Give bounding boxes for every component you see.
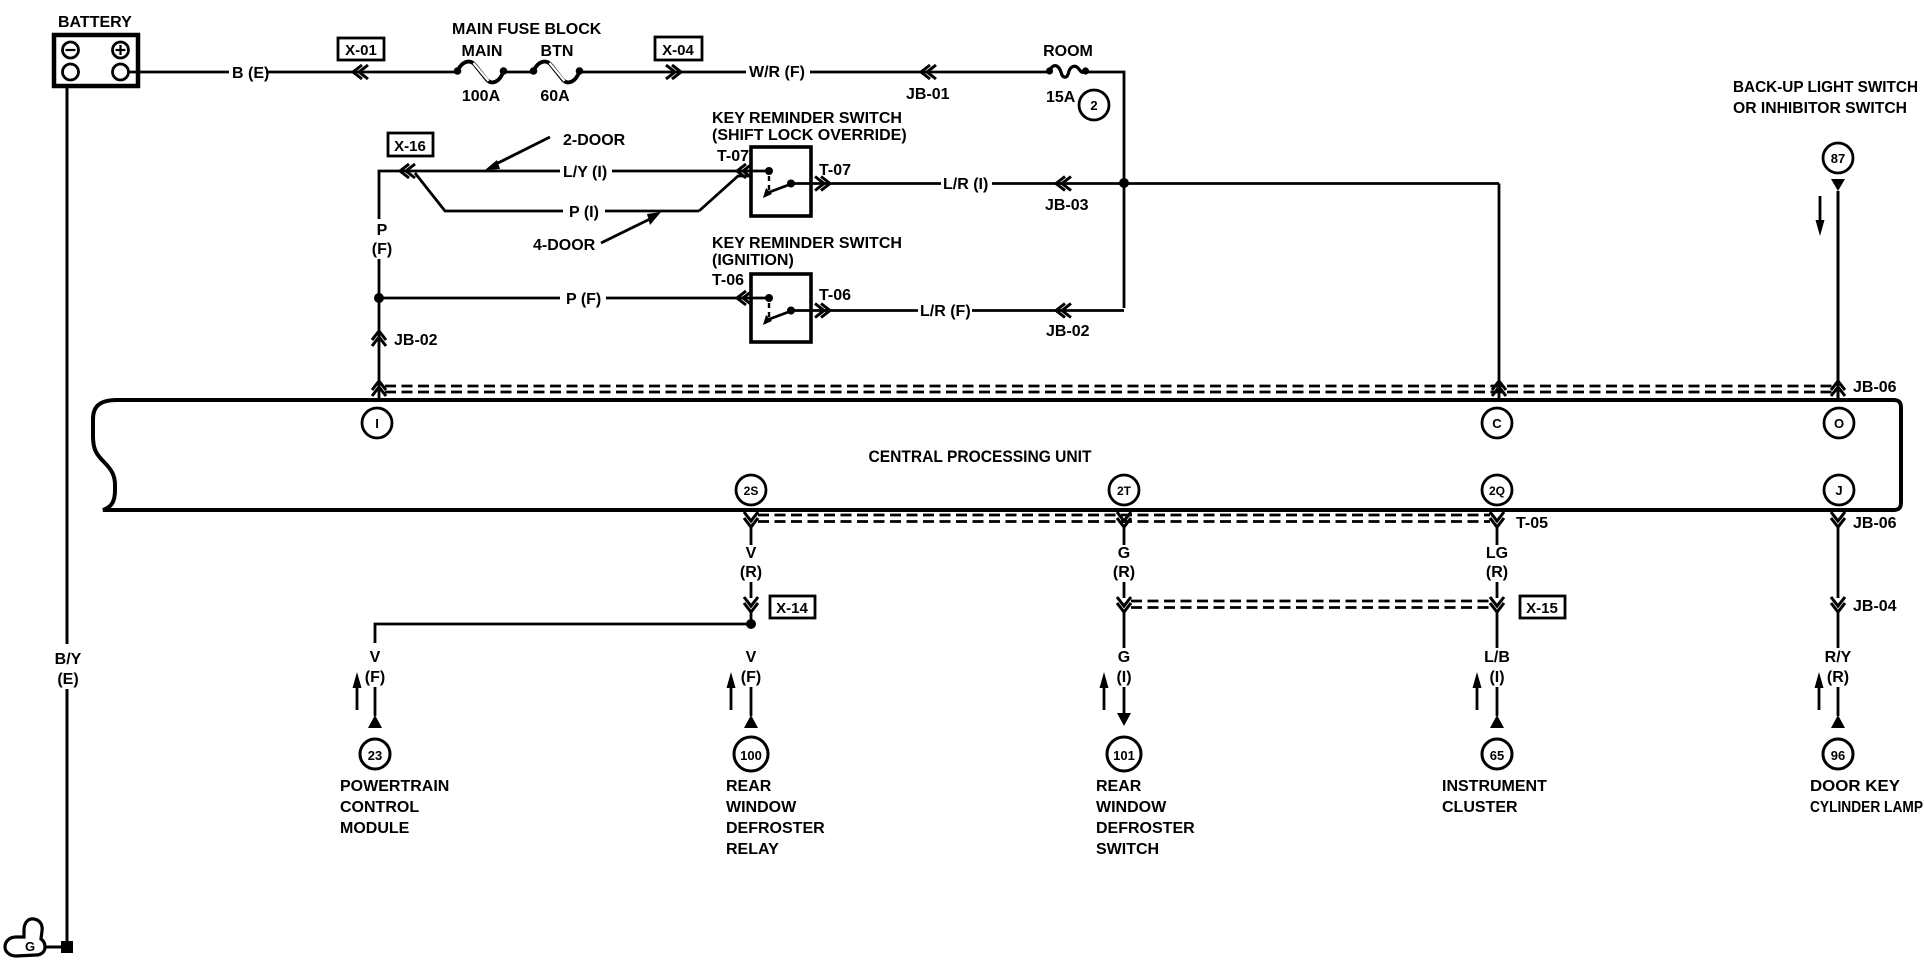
svg-text:2S: 2S bbox=[744, 484, 759, 498]
svg-text:(F): (F) bbox=[365, 669, 385, 686]
svg-text:2T: 2T bbox=[1117, 484, 1132, 498]
svg-text:CENTRAL PROCESSING UNIT: CENTRAL PROCESSING UNIT bbox=[869, 447, 1093, 466]
connector box X-01 bbox=[338, 38, 384, 60]
connector box X-15 bbox=[1520, 596, 1565, 618]
svg-text:CLUSTER: CLUSTER bbox=[1442, 799, 1518, 816]
triangle connector (down) bbox=[1831, 179, 1845, 191]
wire B(E) battery to fuse block bbox=[129, 71, 230, 74]
svg-text:96: 96 bbox=[1831, 748, 1845, 763]
svg-text:W/R (F): W/R (F) bbox=[749, 64, 805, 81]
svg-text:2: 2 bbox=[1090, 98, 1097, 113]
wire L/Y (I) with corner bbox=[379, 171, 560, 219]
svg-text:(R): (R) bbox=[1113, 564, 1135, 581]
svg-text:R/Y: R/Y bbox=[1825, 649, 1852, 666]
svg-text:O: O bbox=[1834, 416, 1844, 431]
wire JB-06 to JB-04 bbox=[1837, 527, 1840, 598]
svg-text:P: P bbox=[377, 222, 388, 239]
svg-text:(SHIFT LOCK OVERRIDE): (SHIFT LOCK OVERRIDE) bbox=[712, 127, 907, 144]
wire between fuses bbox=[505, 71, 533, 74]
svg-text:MAIN: MAIN bbox=[462, 43, 503, 60]
triangle connector up bbox=[368, 715, 382, 728]
svg-text:V: V bbox=[746, 545, 757, 562]
direction arrow down bbox=[1816, 196, 1825, 236]
connector circle 96 bbox=[1823, 739, 1853, 769]
svg-text:L/R (I): L/R (I) bbox=[943, 176, 988, 193]
svg-text:BACK-UP LIGHT SWITCH: BACK-UP LIGHT SWITCH bbox=[1733, 79, 1918, 96]
svg-text:C: C bbox=[1492, 416, 1502, 431]
svg-text:REAR: REAR bbox=[1096, 778, 1142, 795]
direction arrow up bbox=[727, 672, 736, 710]
svg-text:LG: LG bbox=[1486, 545, 1508, 562]
svg-text:L/B: L/B bbox=[1484, 649, 1510, 666]
wire diagonal P(I) to T-07 bbox=[699, 176, 751, 211]
wire L/B (I) bbox=[1496, 612, 1499, 648]
svg-text:JB-03: JB-03 bbox=[1045, 197, 1089, 214]
junction chevron JB-04 bbox=[1831, 597, 1845, 612]
wire dashed bus lower bbox=[758, 515, 1490, 522]
svg-text:JB-04: JB-04 bbox=[1853, 598, 1897, 615]
junction chevron below 2T bbox=[1117, 512, 1131, 527]
svg-text:G: G bbox=[1118, 545, 1130, 562]
battery bbox=[54, 14, 138, 86]
svg-text:KEY REMINDER SWITCH: KEY REMINDER SWITCH bbox=[712, 235, 902, 252]
wire W/R to ROOM fuse bbox=[810, 71, 1049, 74]
svg-text:65: 65 bbox=[1490, 748, 1504, 763]
svg-text:J: J bbox=[1835, 483, 1842, 498]
wire dashed X-15 link bbox=[1131, 601, 1490, 608]
svg-text:60A: 60A bbox=[540, 88, 570, 105]
svg-text:L/Y (I): L/Y (I) bbox=[563, 164, 607, 181]
junction chevron below 2Q (T-05) bbox=[1490, 512, 1504, 527]
svg-text:I: I bbox=[375, 416, 379, 431]
label P (F) vertical wire bbox=[372, 222, 392, 258]
label powertrain control module bbox=[340, 778, 449, 837]
svg-text:P (F): P (F) bbox=[566, 291, 601, 308]
svg-text:(R): (R) bbox=[740, 564, 762, 581]
connector circle 100 bbox=[734, 737, 768, 771]
connector box X-04 bbox=[655, 37, 702, 60]
wire V (R) bbox=[750, 527, 753, 545]
svg-text:T-07: T-07 bbox=[717, 148, 749, 165]
wire LG (R) bbox=[1496, 527, 1499, 545]
connector X-01 chevron bbox=[353, 65, 368, 79]
fuse BTN 60A bbox=[530, 43, 584, 105]
svg-text:(R): (R) bbox=[1827, 669, 1849, 686]
svg-text:(E): (E) bbox=[57, 671, 78, 688]
terminal J bbox=[1824, 475, 1854, 505]
svg-text:T-05: T-05 bbox=[1516, 515, 1548, 532]
wire B/Y (E) bbox=[66, 88, 69, 644]
svg-text:JB-06: JB-06 bbox=[1853, 515, 1897, 532]
svg-text:ROOM: ROOM bbox=[1043, 43, 1093, 60]
terminal 2T bbox=[1109, 475, 1139, 505]
wire to PCM bbox=[374, 687, 377, 716]
svg-text:T-06: T-06 bbox=[712, 272, 744, 289]
label rear window defroster relay bbox=[726, 778, 825, 858]
junction chevron above O (JB-06) bbox=[1831, 381, 1845, 396]
label door key cylinder lamp bbox=[1810, 778, 1923, 816]
svg-text:V: V bbox=[746, 649, 757, 666]
svg-text:SWITCH: SWITCH bbox=[1096, 841, 1159, 858]
svg-text:WINDOW: WINDOW bbox=[726, 799, 797, 816]
connector circle 101 bbox=[1107, 737, 1141, 771]
terminal 2Q bbox=[1482, 475, 1512, 505]
svg-text:JB-06: JB-06 bbox=[1853, 379, 1897, 396]
wire R/Y (R) bbox=[1837, 612, 1840, 648]
key reminder switch T-07 (shift lock override) bbox=[712, 110, 907, 216]
svg-text:MAIN FUSE BLOCK: MAIN FUSE BLOCK bbox=[452, 21, 602, 38]
svg-text:KEY REMINDER SWITCH: KEY REMINDER SWITCH bbox=[712, 110, 902, 127]
wire dashed bus upper bbox=[385, 386, 1832, 392]
svg-text:X-14: X-14 bbox=[776, 600, 808, 617]
wire G (I) bbox=[1123, 612, 1126, 648]
svg-text:2Q: 2Q bbox=[1489, 484, 1505, 498]
connector box X-14 bbox=[770, 596, 815, 618]
chevron into T-06 bbox=[737, 291, 752, 305]
svg-text:V: V bbox=[370, 649, 381, 666]
pointer 4-DOOR bbox=[533, 212, 661, 254]
connector circle 87 bbox=[1823, 143, 1853, 173]
direction arrow up bbox=[353, 672, 362, 710]
svg-text:CONTROL: CONTROL bbox=[340, 799, 419, 816]
svg-text:INSTRUMENT: INSTRUMENT bbox=[1442, 778, 1547, 795]
svg-text:B (E): B (E) bbox=[232, 65, 269, 82]
svg-text:(F): (F) bbox=[741, 669, 761, 686]
svg-text:15A: 15A bbox=[1046, 89, 1076, 106]
wire down to CPU terminal C bbox=[1498, 184, 1501, 400]
node P(F) junction bbox=[374, 293, 384, 303]
svg-text:100: 100 bbox=[740, 748, 762, 763]
svg-text:X-16: X-16 bbox=[394, 138, 426, 155]
svg-text:G: G bbox=[1118, 649, 1130, 666]
junction chevron above I bbox=[372, 381, 386, 396]
circuit number circle 2 bbox=[1079, 90, 1109, 120]
fuse ROOM 15A bbox=[1043, 43, 1093, 106]
junction chevron above C bbox=[1492, 381, 1506, 396]
wire V(F) horizontal to PCM branch bbox=[375, 624, 751, 643]
wire ground link bbox=[44, 946, 67, 949]
svg-text:CYLINDER LAMP: CYLINDER LAMP bbox=[1810, 799, 1923, 816]
junction JB-01 chevron bbox=[921, 65, 936, 79]
svg-text:(IGNITION): (IGNITION) bbox=[712, 252, 794, 269]
svg-text:100A: 100A bbox=[462, 88, 501, 105]
svg-text:101: 101 bbox=[1113, 748, 1135, 763]
svg-text:G: G bbox=[25, 939, 35, 954]
svg-text:BTN: BTN bbox=[541, 43, 574, 60]
node junction V(F) bbox=[746, 619, 756, 629]
svg-text:JB-02: JB-02 bbox=[1046, 323, 1090, 340]
ground G bbox=[5, 919, 45, 956]
svg-text:X-04: X-04 bbox=[662, 42, 694, 59]
svg-text:RELAY: RELAY bbox=[726, 841, 779, 858]
svg-text:OR INHIBITOR SWITCH: OR INHIBITOR SWITCH bbox=[1733, 100, 1907, 117]
svg-text:(I): (I) bbox=[1116, 669, 1131, 686]
svg-text:MODULE: MODULE bbox=[340, 820, 410, 837]
key reminder switch T-06 (ignition) bbox=[712, 235, 902, 342]
svg-text:JB-01: JB-01 bbox=[906, 86, 950, 103]
node ground junction bbox=[61, 941, 73, 953]
label rear window defroster switch bbox=[1096, 778, 1195, 858]
svg-text:(I): (I) bbox=[1489, 669, 1504, 686]
connector X-15 chevron bbox=[1490, 597, 1504, 612]
connector circle 23 bbox=[360, 739, 390, 769]
triangle connector down bbox=[1117, 713, 1131, 726]
wire P (F) horizontal bbox=[379, 297, 560, 300]
svg-text:X-15: X-15 bbox=[1526, 600, 1558, 617]
fuse MAIN 100A bbox=[454, 43, 508, 105]
wire to junction bbox=[750, 612, 753, 624]
svg-text:DEFROSTER: DEFROSTER bbox=[1096, 820, 1195, 837]
terminal O bbox=[1824, 408, 1854, 438]
svg-text:(R): (R) bbox=[1486, 564, 1508, 581]
chevron into T-07 bbox=[737, 164, 752, 178]
svg-text:B/Y: B/Y bbox=[55, 651, 82, 668]
direction arrow up bbox=[1473, 672, 1482, 710]
connector X-14 chevron bbox=[744, 597, 758, 612]
svg-text:REAR: REAR bbox=[726, 778, 772, 795]
connector box X-16 bbox=[388, 133, 433, 156]
svg-text:23: 23 bbox=[368, 748, 382, 763]
wire P (F) vertical bbox=[378, 259, 381, 298]
connector circle 65 bbox=[1482, 739, 1512, 769]
terminal 2S bbox=[736, 475, 766, 505]
svg-text:DOOR KEY: DOOR KEY bbox=[1810, 778, 1900, 795]
terminal I bbox=[362, 408, 392, 438]
wire branch to P (I) bbox=[415, 173, 563, 211]
triangle connector up bbox=[744, 715, 758, 728]
junction chevron (X-15 bus) bbox=[1117, 597, 1131, 612]
node junction at L/R(I) bbox=[1119, 178, 1129, 188]
svg-text:4-DOOR: 4-DOOR bbox=[533, 237, 596, 254]
junction chevron below 2S bbox=[744, 512, 758, 527]
wire L/R (F) bbox=[811, 309, 918, 312]
direction arrow up bbox=[1100, 672, 1109, 710]
junction chevron below J (JB-06) bbox=[1831, 512, 1845, 527]
junction JB-02 chevron bbox=[372, 331, 386, 346]
wire down to CPU terminal O bbox=[1837, 191, 1840, 399]
svg-text:L/R (F): L/R (F) bbox=[920, 303, 971, 320]
svg-text:T-06: T-06 bbox=[819, 287, 851, 304]
svg-text:X-01: X-01 bbox=[345, 42, 377, 59]
connector X-16 chevron bbox=[400, 164, 415, 178]
svg-text:T-07: T-07 bbox=[819, 162, 851, 179]
svg-text:BATTERY: BATTERY bbox=[58, 14, 132, 31]
svg-text:2-DOOR: 2-DOOR bbox=[563, 132, 626, 149]
wire G (R) bbox=[1123, 527, 1126, 545]
svg-text:JB-02: JB-02 bbox=[394, 332, 438, 349]
wire corner to vertical feed bbox=[1087, 72, 1124, 308]
triangle connector up bbox=[1490, 715, 1504, 728]
connector X-04 chevron bbox=[666, 65, 681, 79]
pointer 2-DOOR bbox=[485, 132, 626, 170]
triangle connector up bbox=[1831, 715, 1845, 728]
CPU box bbox=[93, 400, 1901, 510]
wire L/R (I) bbox=[811, 182, 941, 185]
svg-text:WINDOW: WINDOW bbox=[1096, 799, 1167, 816]
svg-text:DEFROSTER: DEFROSTER bbox=[726, 820, 825, 837]
wire to X-04 bbox=[580, 71, 746, 74]
terminal C bbox=[1482, 408, 1512, 438]
svg-text:(F): (F) bbox=[372, 241, 392, 258]
svg-text:POWERTRAIN: POWERTRAIN bbox=[340, 778, 449, 795]
direction arrow up bbox=[1815, 672, 1824, 710]
label instrument cluster bbox=[1442, 778, 1547, 816]
wire JB-02 down to CPU bbox=[378, 298, 381, 399]
svg-text:P (I): P (I) bbox=[569, 204, 599, 221]
svg-text:87: 87 bbox=[1831, 151, 1845, 166]
